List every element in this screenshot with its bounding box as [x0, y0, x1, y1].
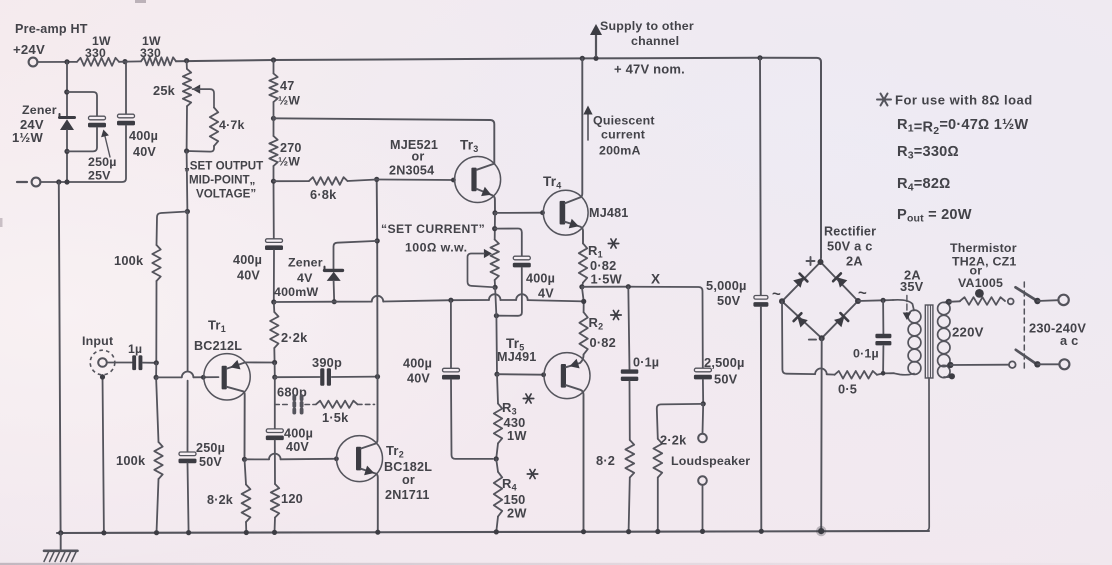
- svg-text:1·5k: 1·5k: [322, 410, 349, 425]
- wire mid-point line upper: [186, 212, 188, 372]
- input jack inner circle: [98, 358, 107, 367]
- svg-text:1µ: 1µ: [128, 342, 142, 356]
- wire secondary tap to switch: [950, 364, 1008, 366]
- wire 1u to bias node: [143, 362, 157, 364]
- svg-text:or: or: [402, 473, 415, 487]
- svg-text:8·2: 8·2: [596, 453, 615, 468]
- svg-text:current: current: [601, 128, 645, 142]
- bridge diamond: [782, 262, 858, 338]
- svg-text:X: X: [651, 272, 660, 287]
- wire 2500u bottom: [702, 380, 704, 404]
- svg-text:2·2k: 2·2k: [281, 330, 308, 345]
- svg-text:40V: 40V: [133, 145, 156, 159]
- junction X node: [579, 284, 584, 289]
- svg-text:R3=330Ω: R3=330Ω: [897, 144, 959, 162]
- svg-text:+ 47V nom.: + 47V nom.: [614, 62, 685, 77]
- wire Tr5 base node to R3: [497, 374, 498, 403]
- wire 270 node to 6.8k: [274, 180, 310, 182]
- resistor 8.2k: [245, 459, 247, 484]
- junction bottom rail 120: [272, 530, 277, 535]
- junction Tr1 emitter node: [272, 360, 277, 365]
- wire base node to 100k lower: [156, 377, 158, 442]
- wire 0.1u bridge bottom lead: [882, 346, 884, 373]
- resistor R 330 1W (second): [141, 57, 176, 65]
- junction bottom rail loudspeaker: [700, 529, 705, 534]
- wire 2.2k top lead: [657, 404, 703, 439]
- transistor Tr3 emitter (NPN arrow): [477, 189, 495, 213]
- junction bridge - node: [819, 335, 825, 341]
- wire 100k lower to rail: [157, 479, 159, 533]
- transistor Tr4 emitter (NPN arrow): [565, 222, 583, 244]
- wire +24V terminal to rail: [38, 61, 77, 63]
- wire emitter node to 390p node: [274, 363, 276, 378]
- wire loudspeaker bottom lead: [702, 485, 704, 531]
- wire 250u50V to rail: [188, 463, 189, 532]
- resistor 100k upper: [152, 245, 160, 281]
- wire 8.2 to rail: [629, 478, 630, 532]
- terminal +24V: [29, 58, 38, 67]
- wire 0.1u bridge top lead: [882, 300, 884, 333]
- wire 400u mid bottom: [451, 380, 493, 459]
- svg-text:„SET OUTPUT: „SET OUTPUT: [184, 160, 263, 173]
- junction set-output node: [185, 209, 190, 214]
- transistor Tr1 collector: [227, 387, 245, 459]
- wire 400u#1 bottom to minus wire: [41, 126, 126, 182]
- capacitor 250u 50V: [179, 452, 196, 456]
- svg-text:2·2k: 2·2k: [660, 433, 687, 448]
- transistor Tr4 circle: [543, 190, 588, 235]
- capacitor 0.1u (output): [621, 369, 639, 373]
- wire Tr2 collector column: [376, 180, 379, 377]
- diode D3 (bottom-left arm): [798, 317, 808, 327]
- capacitor 400u 40V (pre-amp): [118, 114, 135, 118]
- svg-text:400µ: 400µ: [526, 272, 555, 286]
- thermistor TH2A zigzag: [960, 297, 1005, 305]
- svg-text:Input: Input: [82, 334, 113, 348]
- junction 390p/Tr2 collector: [375, 374, 380, 379]
- svg-text:100k: 100k: [116, 453, 146, 468]
- transistor Tr1 base bar: [222, 366, 227, 390]
- transistor Tr5 emitter (PNP arrow): [566, 354, 584, 367]
- wire 6.8k to Tr3 base: [348, 180, 455, 182]
- annotation quiescent arrow: [587, 113, 589, 140]
- resistor 120: [271, 484, 279, 518]
- wire 400u4V bottom lead: [499, 268, 522, 316]
- switch arm lower: [1016, 350, 1035, 363]
- wire branch to 100k upper: [157, 212, 188, 246]
- svg-text:5,000µ: 5,000µ: [706, 278, 747, 293]
- wire 400u4V top lead: [495, 229, 522, 257]
- svg-text:2W: 2W: [507, 506, 527, 521]
- junction 0.1u bridge: [881, 298, 886, 303]
- svg-text:R4=82Ω: R4=82Ω: [897, 176, 951, 194]
- junction R3/R4: [494, 456, 499, 461]
- svg-text:200mA: 200mA: [599, 144, 641, 158]
- asterisk (footnote): [877, 99, 891, 101]
- terminal minus: [32, 178, 41, 187]
- annotation supply arrow: [595, 33, 597, 56]
- svg-text:400µ: 400µ: [129, 129, 158, 143]
- junction top rail x125: [122, 59, 127, 64]
- junction bootstrap end: [581, 299, 586, 304]
- svg-text:270: 270: [280, 141, 302, 155]
- junction bridge right node: [855, 298, 861, 304]
- junction bottom rail bridge minus: [818, 528, 824, 534]
- node A (+24V rail junction): [64, 59, 69, 64]
- capacitor 2500u 50V: [694, 368, 711, 372]
- svg-text:250µ: 250µ: [196, 441, 225, 455]
- svg-text:Rectifier: Rectifier: [824, 225, 876, 239]
- wire 47 node to Tr3 collector: [274, 118, 495, 163]
- wire secondary top to thermistor: [949, 300, 960, 303]
- svg-text:0·5: 0·5: [838, 382, 857, 397]
- wire 47 to 270: [273, 102, 275, 136]
- transistor Tr3 circle: [455, 157, 501, 203]
- junction secondary tap blob: [947, 362, 953, 368]
- svg-text:+24V: +24V: [13, 42, 45, 57]
- junction bottom rail ground column: [58, 530, 63, 535]
- junction loudspeaker node: [701, 401, 706, 406]
- svg-text:47: 47: [280, 79, 294, 93]
- svg-text:120: 120: [281, 491, 303, 506]
- junction rail supply arrow: [593, 56, 598, 61]
- junction pot top node: [492, 226, 497, 231]
- wire cap lower to 120: [274, 440, 276, 484]
- terminal switch lower pivot: [1009, 361, 1016, 368]
- terminal mains lower: [1059, 359, 1069, 369]
- transistor Tr2 circle: [337, 436, 383, 482]
- wire dashed left: [275, 404, 289, 406]
- svg-text:400µ: 400µ: [284, 427, 313, 441]
- capacitor 250u 25V: [89, 116, 106, 120]
- svg-text:1·5W: 1·5W: [591, 272, 623, 287]
- label + (bridge): [807, 260, 815, 262]
- junction zener24/250u: [64, 89, 69, 94]
- svg-text:2A: 2A: [846, 254, 863, 269]
- diode D1 (top-left arm): [793, 278, 803, 288]
- wire 5000u top lead: [759, 58, 762, 295]
- capacitor 680p (dashed): [292, 396, 296, 413]
- junction secondary top blob: [946, 299, 952, 305]
- junction zener4 bottom: [332, 299, 337, 304]
- junction bottom rail 250u50V: [186, 530, 191, 535]
- resistor R4 150 2W: [496, 459, 498, 472]
- wire dashed right: [358, 403, 375, 405]
- input jack outer dashed circle: [90, 350, 115, 375]
- junction Tr1 base node: [154, 375, 159, 380]
- wire R3 to junction: [496, 443, 498, 459]
- wire loudspeaker top lead: [702, 404, 705, 434]
- wire 390p right: [332, 376, 378, 378]
- resistor R 330 1W (first): [77, 58, 119, 66]
- svg-text:330: 330: [140, 46, 161, 60]
- wire 0.1u to 8.2: [629, 381, 631, 440]
- zener diode 24V: [60, 116, 75, 119]
- wire bottom rail: [57, 531, 929, 533]
- junction bottom rail 8.2: [626, 529, 631, 534]
- wire bridge right to primary: [858, 300, 893, 301]
- terminal loudspeaker top: [698, 434, 707, 443]
- annotation arrow 35V winding: [906, 296, 908, 315]
- junction zener4 top: [375, 238, 380, 243]
- wire bootstrap run: [274, 301, 372, 303]
- wire 0.1u top lead: [628, 287, 629, 370]
- svg-text:1½W: 1½W: [12, 130, 43, 145]
- junction 1u bias node: [154, 360, 159, 365]
- annotation arrow to 250u plate: [104, 133, 110, 157]
- svg-text:For use with 8Ω load: For use with 8Ω load: [895, 93, 1033, 108]
- wire 400u mid top: [450, 300, 452, 368]
- wire pot top: [494, 213, 496, 240]
- svg-text:2N1711: 2N1711: [385, 488, 430, 502]
- wire R1 to X node: [582, 283, 583, 287]
- junction 400u4V/Tr5 base column: [494, 313, 499, 318]
- transistor Tr1 circle: [204, 354, 250, 400]
- junction secondary end stub blob: [949, 373, 955, 379]
- svg-text:400µ: 400µ: [233, 253, 262, 267]
- wire top rail to right end: [176, 58, 821, 258]
- junction pot bottom node: [493, 285, 498, 290]
- potentiometer 100ohm SET CURRENT: [491, 240, 499, 281]
- potentiometer 25k: [186, 61, 188, 69]
- wire 2.2k to rail: [657, 478, 659, 532]
- svg-text:400µ: 400µ: [403, 357, 432, 371]
- wire 5000u bottom lead: [760, 307, 762, 531]
- wiper arrow 25k: [192, 85, 200, 94]
- capacitor 5000u 50V: [754, 296, 768, 300]
- junction bottom rail Tr2 emitter: [375, 530, 380, 535]
- terminal loudspeaker bottom: [698, 476, 707, 485]
- wire Tr4 base run: [495, 212, 541, 214]
- resistor 100k lower: [154, 442, 162, 479]
- resistor R2 0.82: [579, 312, 587, 354]
- wire jack to 1u: [107, 362, 132, 364]
- wire 270 to cap: [273, 166, 275, 239]
- transistor Tr5 circle: [544, 353, 590, 399]
- svg-text:25k: 25k: [153, 83, 176, 98]
- svg-text:Quiescent: Quiescent: [593, 114, 655, 128]
- transistor Tr5 base bar: [561, 364, 566, 388]
- svg-text:Zener: Zener: [22, 103, 57, 117]
- wire zener24 bottom: [66, 130, 68, 182]
- svg-text:VOLTAGE”: VOLTAGE”: [196, 188, 256, 201]
- svg-text:400mW: 400mW: [274, 285, 318, 299]
- wire Tr5 base run: [497, 373, 541, 376]
- capacitor 400u 4V: [513, 256, 530, 260]
- junction bottom rail 8.2k: [244, 530, 249, 535]
- wire bridge + lead: [820, 258, 823, 263]
- transistor Tr1 emitter (PNP arrow): [227, 362, 246, 368]
- svg-text:6·8k: 6·8k: [310, 187, 337, 202]
- wire X node to R2: [582, 287, 584, 312]
- transformer secondary winding (220V side): [938, 302, 950, 314]
- wire rail between 330s: [119, 60, 141, 62]
- wire Tr1 base run: [156, 376, 182, 378]
- terminal switch upper pivot: [1008, 299, 1014, 305]
- capacitor 390p: [320, 368, 324, 386]
- wire Tr1 emitter to 2.2k node: [245, 361, 273, 363]
- junction zener4V node: [271, 299, 276, 304]
- junction base wire blob: [201, 375, 206, 380]
- svg-text:Supply to other: Supply to other: [600, 19, 694, 33]
- junction 0.1u bottom: [881, 371, 886, 376]
- junction Tr5 base blob: [541, 372, 546, 377]
- svg-text:Thermistor: Thermistor: [950, 241, 1017, 255]
- junction bottom rail Tr5 collector: [581, 529, 586, 534]
- wire mid-point line lower: [187, 381, 189, 452]
- label - (bridge): [809, 339, 816, 341]
- junction switch lower blob: [1034, 361, 1040, 367]
- transformer primary winding (35V side): [893, 300, 914, 311]
- label minus sign: [17, 181, 27, 183]
- wire 100k upper to 1u node: [155, 281, 157, 363]
- transistor Tr3 collector: [477, 164, 495, 170]
- wire zener24 top: [66, 62, 68, 117]
- svg-text:½W: ½W: [278, 155, 300, 169]
- junction minus wire ground line: [56, 179, 61, 184]
- wire dashed mid: [305, 404, 316, 406]
- wire 400u#1 top: [125, 62, 127, 114]
- svg-text:MJ481: MJ481: [589, 206, 629, 220]
- wire 390p node down: [274, 377, 276, 429]
- svg-text:390p: 390p: [312, 355, 342, 370]
- resistor 270 1/2W: [269, 136, 277, 166]
- capacitor 0.1u (bridge): [875, 334, 891, 338]
- svg-text:100Ω w.w.: 100Ω w.w.: [405, 241, 467, 255]
- wire 47-270 column top: [273, 60, 275, 74]
- terminal mains upper: [1058, 295, 1068, 305]
- svg-text:“SET CURRENT”: “SET CURRENT”: [381, 222, 485, 236]
- svg-text:50V: 50V: [717, 293, 741, 308]
- wire zener4 top lead: [334, 241, 378, 269]
- junction 25k/4.7k bottom: [184, 148, 189, 153]
- junction bottom rail 100k lower: [154, 530, 159, 535]
- svg-text:50V a c: 50V a c: [827, 239, 873, 254]
- resistor 2.2k: [273, 302, 276, 312]
- wire jack sleeve ground: [103, 375, 104, 533]
- capacitor 400u 40V (x274): [266, 239, 283, 243]
- resistor R1 0.82: [579, 243, 587, 282]
- junction Tr2 base blob: [334, 456, 339, 461]
- svg-text:2N3054: 2N3054: [389, 164, 434, 178]
- svg-text:4·7k: 4·7k: [219, 118, 245, 132]
- junction Tr3 emitter node: [492, 210, 497, 215]
- thermistor bead: [975, 289, 984, 298]
- wire switch upper to terminal: [1037, 299, 1058, 302]
- junction 390p node: [272, 375, 277, 380]
- wire switch lower to terminal: [1037, 363, 1059, 365]
- svg-text:1W: 1W: [507, 428, 527, 443]
- transistor Tr2 base bar: [356, 447, 361, 471]
- junction bridge left node: [779, 298, 785, 304]
- svg-text:4V: 4V: [538, 287, 554, 301]
- transformer core: [925, 305, 933, 378]
- svg-text:MJ491: MJ491: [497, 350, 537, 364]
- resistor 8.2: [625, 440, 634, 478]
- junction Tr4 base blob: [540, 210, 545, 215]
- svg-text:VA1005: VA1005: [958, 276, 1003, 290]
- resistor 2.2k (output): [653, 439, 662, 478]
- svg-text:40V: 40V: [286, 440, 309, 454]
- wire 120 to rail: [274, 518, 277, 533]
- wire bias node to base node: [155, 363, 157, 378]
- junction bottom rail jack sleeve: [101, 530, 106, 535]
- switch gang dashed link: [1023, 282, 1025, 370]
- junction 270/6.8k: [271, 179, 276, 184]
- wire 250u bottom: [67, 128, 97, 152]
- svg-text:25V: 25V: [88, 169, 111, 183]
- wire X run: [582, 287, 703, 368]
- svg-text:4V: 4V: [297, 271, 313, 285]
- svg-text:2,500µ: 2,500µ: [704, 355, 745, 370]
- wire Tr5 base column: [495, 287, 497, 374]
- svg-text:MID-POINT„: MID-POINT„: [189, 174, 255, 187]
- resistor 47 1/2W: [269, 74, 277, 103]
- junction rail 5000u line: [757, 55, 762, 60]
- junction rail 25k: [184, 58, 189, 63]
- diode D2 (top-right arm): [837, 277, 847, 287]
- svg-text:Pre-amp HT: Pre-amp HT: [15, 22, 88, 36]
- svg-text:Loudspeaker: Loudspeaker: [671, 454, 750, 468]
- junction bridge + node: [818, 259, 824, 265]
- svg-text:0·1µ: 0·1µ: [633, 356, 659, 370]
- wire Tr2 base run: [245, 458, 270, 460]
- junction switch upper blob: [1034, 298, 1040, 304]
- junction bottom rail 2.2k: [655, 529, 660, 534]
- junction Tr3 base blob: [451, 178, 456, 183]
- wire zener4 bottom lead: [333, 281, 336, 302]
- resistor 4.7k: [210, 108, 218, 147]
- wire pot bottom: [494, 280, 496, 287]
- svg-text:BC182L: BC182L: [384, 460, 432, 474]
- resistor R3 430 1W: [494, 404, 502, 444]
- switch arm upper: [1016, 287, 1036, 299]
- svg-text:250µ: 250µ: [88, 155, 117, 169]
- svg-text:~: ~: [772, 286, 781, 303]
- junction rail Tr4 collector line: [580, 56, 585, 61]
- capacitor 400u 40V (middle): [443, 368, 460, 372]
- junction 6.8k/Tr2collector: [374, 177, 379, 182]
- junction bottom rail 5000u: [759, 529, 764, 534]
- resistor 1.5k (dashed link): [316, 401, 358, 408]
- wire set-output node drop: [186, 151, 189, 212]
- svg-text:40V: 40V: [407, 372, 430, 386]
- capacitor 1u: [132, 355, 136, 370]
- junction bootstrap 400u mid: [448, 298, 453, 303]
- zener diode 4V: [325, 269, 343, 272]
- resistor 6.8k: [309, 177, 348, 185]
- junction rail 47ohm: [271, 57, 276, 62]
- svg-text:or: or: [412, 150, 425, 164]
- wiper arrow 100ohm: [484, 249, 492, 258]
- svg-text:channel: channel: [631, 34, 679, 48]
- wire 390p left: [275, 376, 320, 378]
- svg-text:50V: 50V: [714, 372, 738, 387]
- svg-text:a c: a c: [1060, 333, 1078, 348]
- junction bottom rail R4: [494, 529, 499, 534]
- wire bridge - down: [820, 338, 823, 530]
- svg-text:50V: 50V: [199, 455, 222, 469]
- capacitor 400u 40V (lower): [266, 429, 283, 433]
- transistor Tr2 collector: [361, 377, 378, 449]
- wire cap to zener4 node: [273, 250, 275, 302]
- junction zener24 bottom: [64, 149, 69, 154]
- junction 47/270: [271, 116, 276, 121]
- transistor Tr3 base bar: [471, 168, 476, 192]
- svg-text:220V: 220V: [952, 325, 984, 340]
- svg-text:35V: 35V: [900, 279, 924, 294]
- svg-text:~: ~: [858, 285, 867, 302]
